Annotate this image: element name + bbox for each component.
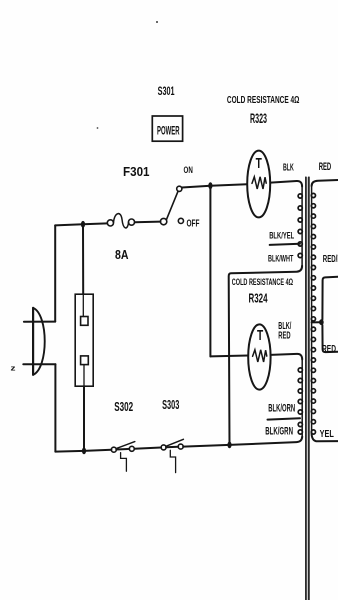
svg-text:OFF: OFF (187, 218, 200, 229)
interlock box (75, 294, 93, 386)
transformer core (307, 177, 309, 600)
svg-text:YEL: YEL (320, 429, 335, 440)
svg-text:RED/B: RED/B (323, 254, 338, 265)
wire plug top vertical (54, 225, 56, 321)
wire center tap branch up-right (322, 277, 338, 320)
transformer secondary spine (311, 186, 313, 433)
wire plug top prong (24, 321, 55, 323)
node junction bottom bus at box (82, 448, 86, 455)
switch S301 (160, 218, 166, 224)
node junction ON bus (208, 182, 212, 189)
svg-text:COLD RESISTANCE 4Ω: COLD RESISTANCE 4Ω (232, 276, 294, 287)
wire BLK/WHT tap down to bottom bus (229, 266, 302, 445)
plug P301 (32, 308, 34, 375)
wire YEL bottom secondary (312, 433, 338, 441)
wire secondary center tap stub (312, 321, 320, 323)
wire bottom bus (55, 450, 111, 452)
svg-text:RED: RED (319, 161, 332, 173)
svg-text:R324: R324 (249, 292, 268, 306)
node junction bottom bus at BLK/WHT (227, 442, 231, 449)
svg-text:F301: F301 (123, 164, 150, 179)
wire BLK/ORN tap stub (268, 418, 301, 419)
wire fuse to switch (135, 221, 161, 224)
svg-text:S303: S303 (162, 398, 179, 412)
POWER box (152, 116, 182, 141)
wire BLK/YEL tap stub (270, 244, 300, 245)
svg-text:RED: RED (322, 344, 336, 355)
thermistor R324 (248, 324, 270, 389)
svg-text:S301: S301 (158, 86, 175, 98)
primary winding 1 loops (298, 193, 315, 434)
transformer primary winding 2 spine (301, 359, 303, 438)
svg-text:z: z (11, 364, 16, 373)
wire R324 right to winding 2 (271, 354, 303, 360)
svg-text:BLK/YEL: BLK/YEL (269, 230, 294, 240)
wire box to bottom bus (83, 386, 85, 451)
svg-text:BLK: BLK (283, 162, 294, 174)
svg-text:ON: ON (184, 165, 193, 175)
svg-text:S302: S302 (114, 400, 133, 414)
node center tap junction (319, 319, 324, 325)
wire junction box feed (82, 224, 84, 294)
svg-text:BLK/GRN: BLK/GRN (265, 425, 293, 437)
primary winding 2 loops (298, 368, 302, 372)
thermistor R323 (247, 151, 270, 218)
svg-text:R323: R323 (250, 111, 267, 126)
svg-text:BLK/WHT: BLK/WHT (268, 253, 294, 263)
wire R324 left (210, 355, 248, 358)
switch S302 (111, 447, 116, 452)
speck top (156, 21, 158, 23)
svg-text:POWER: POWER (157, 126, 180, 138)
node OFF contact (178, 218, 183, 223)
node junction top bus (81, 221, 85, 228)
wire center tap branch down-right (322, 325, 338, 352)
svg-text:BLK/ORN: BLK/ORN (268, 403, 295, 415)
fuse F301 (107, 220, 113, 226)
transformer primary winding 1 spine (301, 185, 303, 266)
wire vertical from ON junction down to R324 (209, 186, 211, 357)
svg-text:COLD RESISTANCE 4Ω: COLD RESISTANCE 4Ω (227, 95, 300, 106)
wire plug bottom vertical (54, 364, 56, 451)
switch S303 (161, 445, 166, 450)
svg-text:8A: 8A (115, 247, 129, 262)
speck mid (97, 127, 99, 129)
svg-text:RED: RED (278, 330, 290, 341)
secondary winding loops (311, 193, 315, 197)
wire ON bus (182, 184, 247, 187)
wire plug bottom prong (23, 363, 55, 365)
wire top bus left of fuse (55, 223, 107, 225)
svg-text:T: T (257, 328, 263, 344)
svg-text:T: T (256, 156, 262, 172)
wire RED top secondary (312, 180, 338, 186)
wire R323 to transformer (271, 181, 303, 187)
